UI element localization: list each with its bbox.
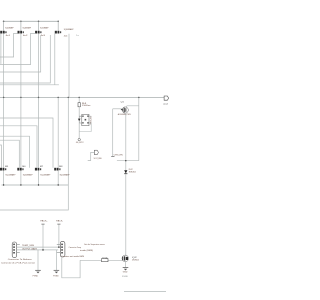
wire M3 drain (38, 21, 40, 30)
node bus-J (68, 97, 69, 98)
svg-text:SQJ488AEP: SQJ488AEP (40, 174, 51, 177)
node bus-Q1 (138, 97, 139, 98)
svg-text:4x1: 4x1 (6, 35, 11, 37)
LED D3 inside U1 (78, 119, 81, 122)
node pack- flag left (40, 220, 48, 225)
svg-text:4x4: 4x4 (64, 36, 68, 38)
ground left (33, 270, 41, 277)
svg-text:inside (BMS): inside (BMS) (80, 250, 93, 252)
wire Q1 base line (113, 108, 123, 110)
svg-text:4x2: 4x2 (23, 35, 28, 37)
node lowbus-M6 (20, 184, 21, 185)
ground Q2 (122, 267, 129, 278)
svg-text:CHG_EN: CHG_EN (114, 155, 124, 157)
wire M2 drain (20, 21, 22, 30)
wire M1 gate route (0, 34, 2, 64)
svg-text:Connector Temp: Connector Temp (69, 246, 82, 249)
wire Q1 source to bus (138, 98, 140, 161)
wire flag left down (42, 224, 44, 250)
wire R4 to U1 (78, 107, 80, 116)
resistor R4 (78, 103, 91, 107)
wire D2 to Q2 drain (125, 174, 127, 256)
node rail-M3 (38, 21, 39, 22)
svg-text:Denotes not inside BMS: Denotes not inside BMS (62, 255, 86, 258)
node bus-M3 (38, 97, 39, 98)
wire flag right down (58, 224, 60, 247)
svg-text:M6: M6 (22, 166, 25, 168)
svg-text:SQJ488AEP: SQJ488AEP (5, 27, 14, 30)
wire M8 gate route (0, 118, 53, 168)
node lowbus-M7 (38, 184, 39, 185)
svg-text:SQJ488AEP: SQJ488AEP (23, 27, 32, 30)
node lowbus-M8 (58, 184, 59, 185)
wire Q1 base to flag (112, 109, 114, 156)
ground GND_SUPPLY flag (76, 138, 84, 144)
connector J1 (1, 242, 35, 264)
svg-text:SI8751AB: SI8751AB (89, 116, 92, 125)
resistor R7 (102, 257, 109, 261)
wire Q2 gate line (80, 259, 122, 261)
svg-text:Q1: Q1 (121, 102, 124, 104)
node rail-M4 (58, 21, 59, 22)
wire M2 gate route (0, 33, 18, 57)
wire M4 drain (57, 21, 59, 30)
wire gnd stub left (37, 250, 39, 270)
transistor M8 (54, 166, 70, 177)
svg-text:TEMP_SNS: TEMP_SNS (22, 245, 35, 247)
svg-text:Connector To Balance: Connector To Balance (8, 258, 32, 261)
transistor M6 (17, 166, 33, 177)
node charge-en flag (111, 155, 123, 157)
transistor M5 (0, 166, 16, 177)
connector out flag (163, 96, 168, 105)
transistor M2 (18, 27, 32, 37)
transistor M4 (55, 28, 79, 37)
svg-text:SQJ488AEP: SQJ488AEP (5, 174, 16, 177)
wire M1 source to mid bus (3, 34, 5, 98)
wire Q1 drain down (125, 113, 127, 170)
ground mid (53, 270, 59, 277)
node lowbus-M5 (3, 184, 4, 185)
node bus-M8 (58, 97, 59, 98)
wire row2 drains from bus (4, 98, 69, 186)
wire mid bus (0, 97, 164, 99)
svg-text:SQJ488AEP: SQJ488AEP (64, 28, 74, 31)
svg-text:Sets the Temperature sensor: Sets the Temperature sensor (84, 243, 105, 246)
node bus-M1 (3, 97, 4, 98)
svg-text:1a: 1a (76, 35, 79, 37)
svg-text:AO3401A_P30V: AO3401A_P30V (118, 113, 132, 116)
wire U1 right pins (79, 116, 91, 131)
svg-text:SS34: SS34 (129, 171, 136, 173)
svg-text:M8: M8 (59, 166, 62, 168)
op-amp U1 ssr box (79, 114, 92, 125)
wire bottom right segment (124, 290, 166, 292)
wire Q1 source jog (126, 106, 138, 108)
svg-text:R7 10k: R7 10k (102, 257, 107, 259)
wire pack- route (0, 185, 68, 210)
svg-text:GND_SUPPLY: GND_SUPPLY (76, 142, 84, 144)
wire gnd stub mid (55, 250, 57, 270)
wire M2 source to mid bus (20, 34, 22, 98)
wire M4 source to mid bus (68, 34, 70, 98)
svg-text:PACK-: PACK- (56, 220, 64, 223)
diode D2 (124, 169, 135, 174)
svg-text:VOLT_SNS: VOLT_SNS (94, 158, 103, 160)
node sense1-flag (58, 246, 60, 248)
svg-text:M7: M7 (40, 166, 43, 168)
transistor Q2 (122, 255, 139, 262)
transistor M7 (35, 166, 51, 177)
wire M3 gate route (0, 33, 35, 64)
svg-text:PACK-: PACK- (40, 220, 48, 223)
transistor Q1 pmos (118, 102, 132, 116)
svg-text:1500hm: 1500hm (82, 105, 91, 107)
wire J2 bottom route (62, 257, 80, 278)
transistor M3 (35, 27, 49, 37)
wire M6b gate route (0, 136, 30, 168)
node drain-loop (125, 160, 126, 161)
wire bus to R4 (78, 98, 80, 103)
svg-text:OUTPUT_BATR: OUTPUT_BATR (22, 247, 38, 250)
node rail-M1 (3, 21, 4, 22)
wire loop to drain (117, 160, 139, 162)
node rail-M2 (20, 21, 21, 22)
connector J2 (57, 241, 85, 258)
wire top rail PACK+ (3, 20, 59, 22)
svg-text:SQJ488AEP: SQJ488AEP (23, 174, 34, 177)
node bus-R4 (79, 97, 80, 98)
svg-text:SQJ488AEP: SQJ488AEP (40, 27, 49, 30)
wire sense line 2 (17, 249, 59, 251)
wire M7 gate route (0, 126, 37, 168)
node mid sense flag (88, 150, 103, 160)
svg-text:M5: M5 (5, 166, 8, 168)
node bus-M2 (20, 97, 21, 98)
svg-text:SQJ488AEP: SQJ488AEP (60, 174, 71, 177)
wire M3 gate route b (0, 35, 41, 72)
wire M4 gate route b (0, 35, 50, 83)
wire Q2 source to ground (125, 260, 127, 267)
wire M1 drain (3, 21, 5, 30)
svg-text:2N7002: 2N7002 (132, 259, 139, 261)
wire M3 source to mid bus (38, 34, 40, 98)
wire M4 gate route (0, 33, 59, 84)
node sense2-flag (42, 249, 44, 251)
transistor M1 (0, 27, 14, 37)
wire sense line 1 (17, 246, 59, 248)
wire row2 sources to low bus (4, 171, 59, 185)
svg-text:4x3: 4x3 (41, 35, 46, 37)
wire M6 gate route (0, 140, 19, 168)
svg-text:Connector of a PCB_Pack sensor: Connector of a PCB_Pack sensor (1, 261, 35, 264)
wire M5 gate route (0, 145, 1, 168)
node pack- flag right (56, 220, 64, 225)
wire low bus (2, 184, 69, 186)
wire U1 to gnd-supply flag (78, 123, 80, 138)
svg-text:out: out (163, 102, 168, 105)
